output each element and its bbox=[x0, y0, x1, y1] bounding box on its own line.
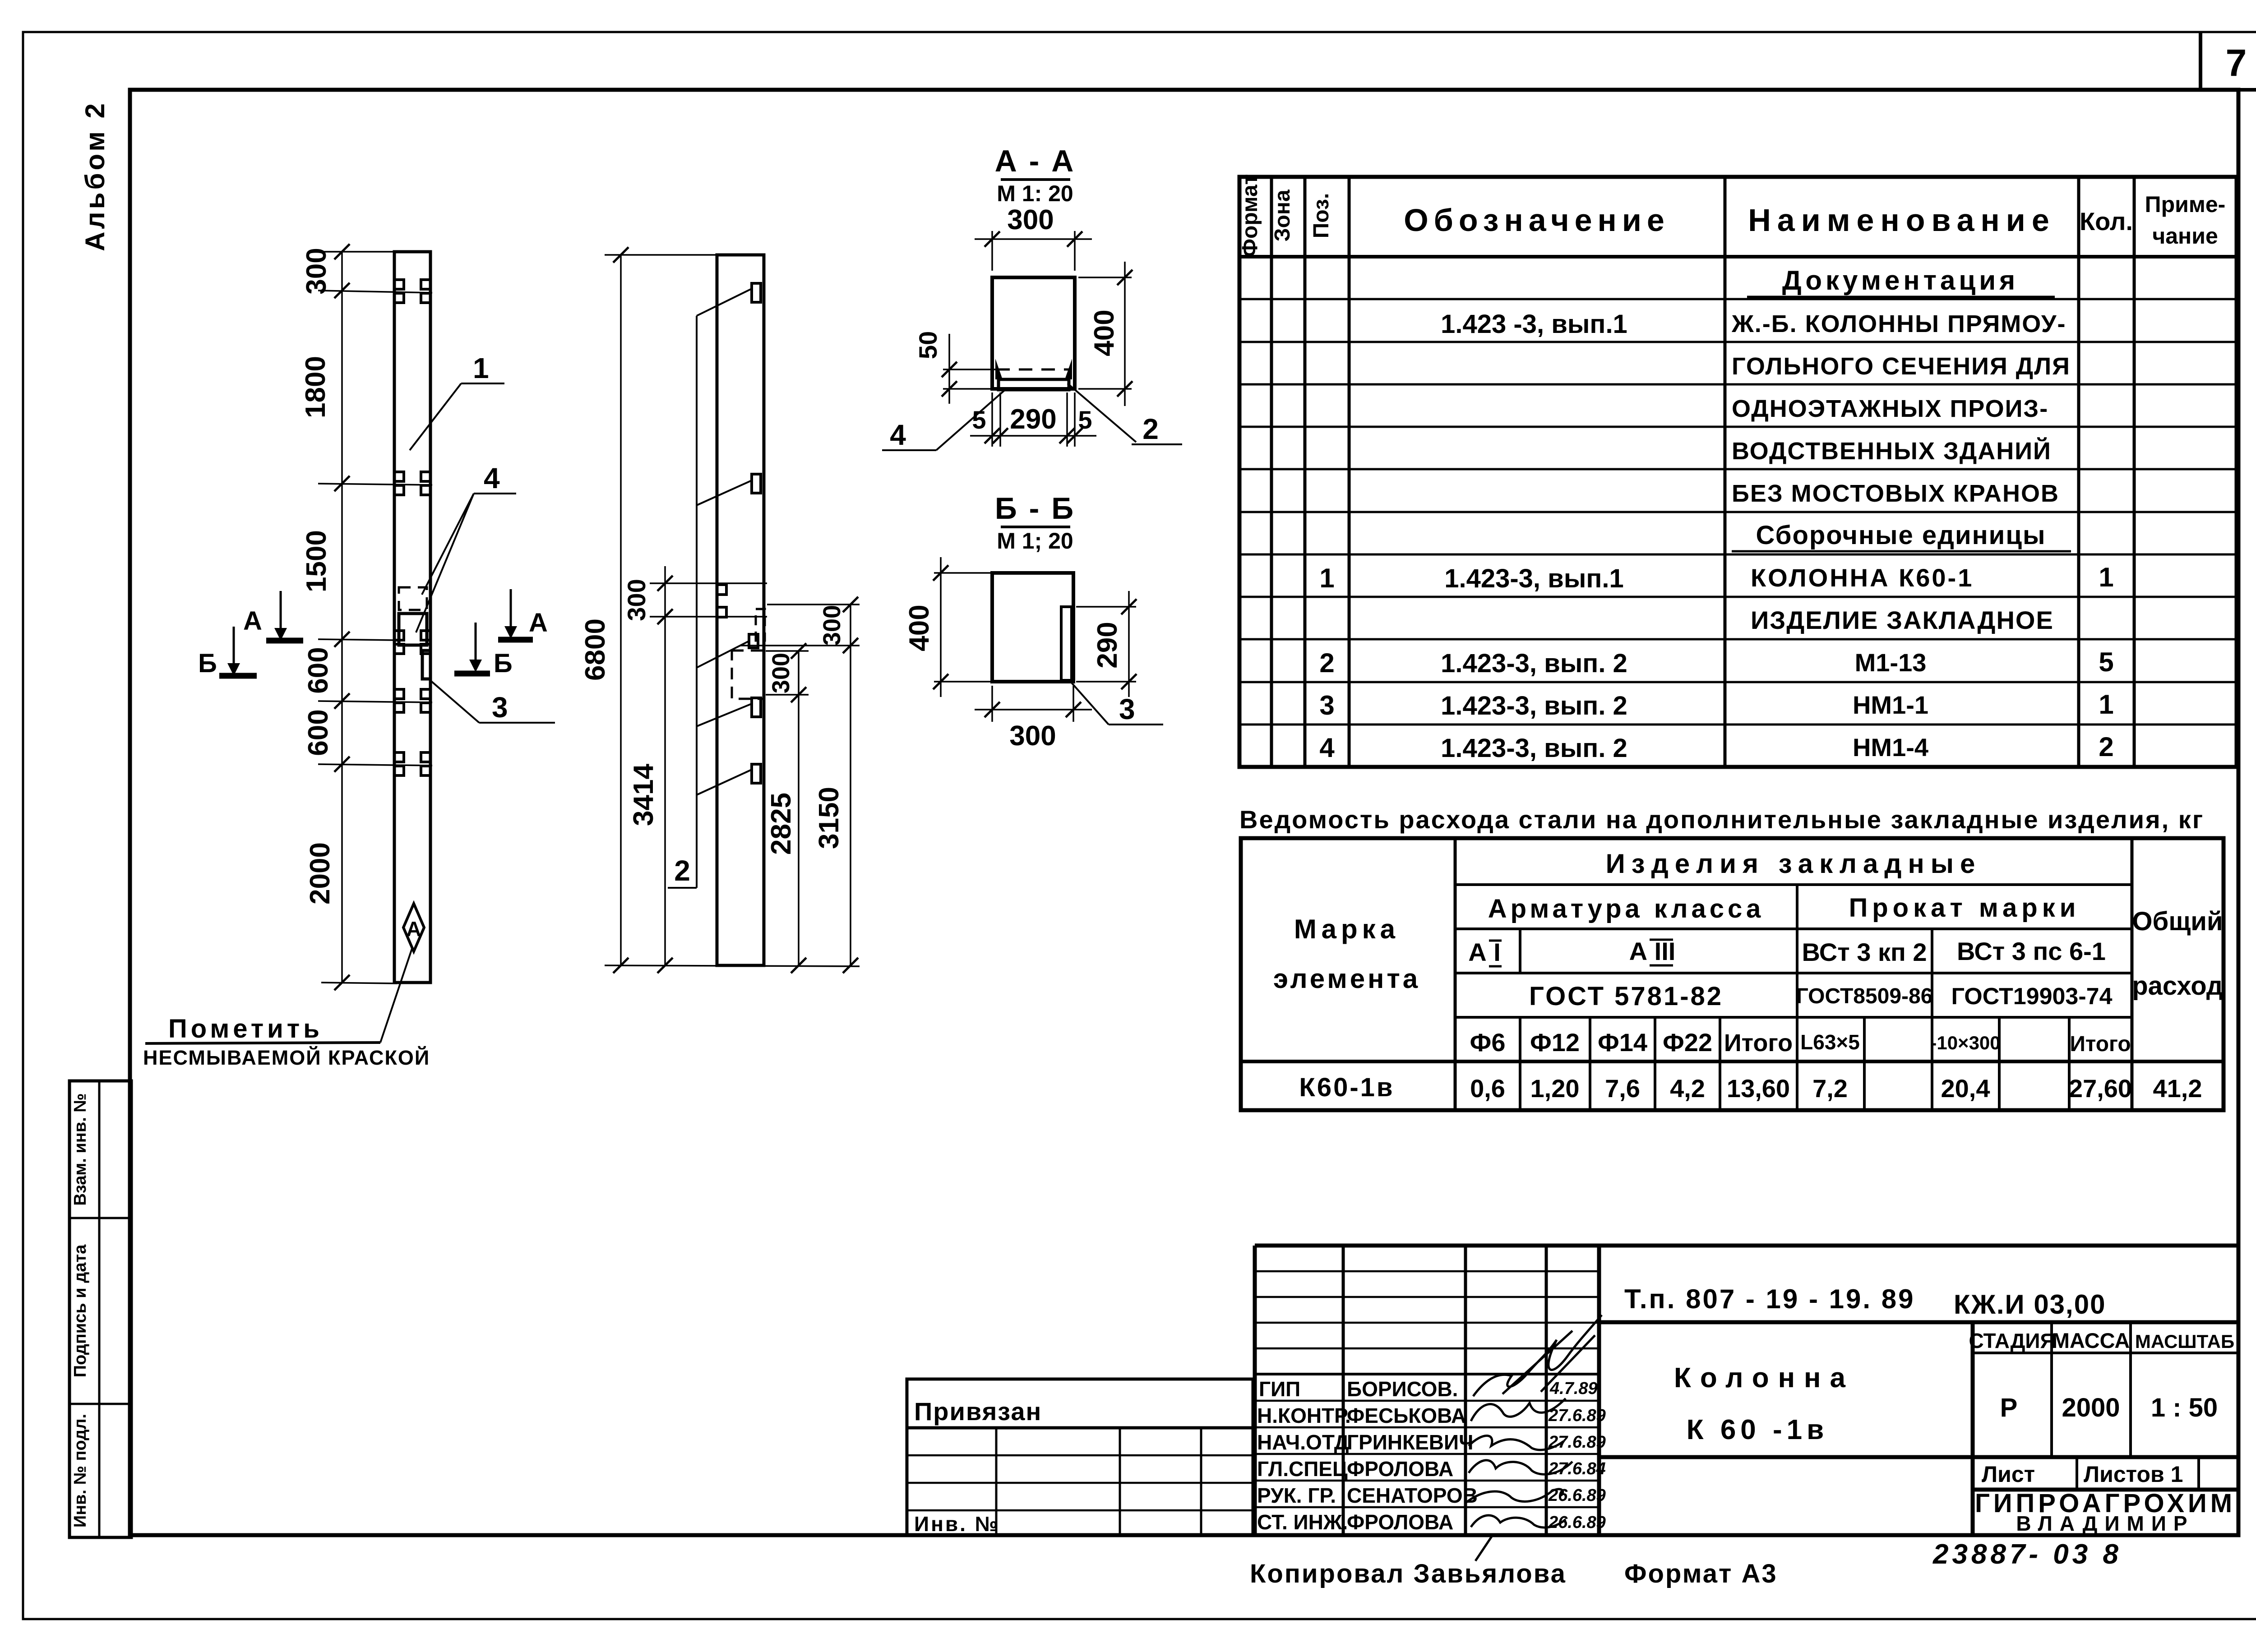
svg-text:290: 290 bbox=[1010, 404, 1056, 435]
svg-text:6800: 6800 bbox=[580, 618, 611, 681]
section arrow A left bbox=[243, 591, 303, 641]
view2 right face plate 3 bbox=[752, 698, 761, 717]
svg-text:Т.п. 807 - 19 - 19. 89: Т.п. 807 - 19 - 19. 89 bbox=[1624, 1284, 1915, 1314]
svg-text:1.423-3, вып. 2: 1.423-3, вып. 2 bbox=[1441, 691, 1627, 720]
svg-text:элемента: элемента bbox=[1273, 964, 1420, 994]
svg-text:Кол.: Кол. bbox=[2080, 207, 2133, 235]
svg-text:7,2: 7,2 bbox=[1812, 1074, 1848, 1103]
section B-B callout 3 bbox=[1069, 680, 1163, 725]
section A-A dim 300 top bbox=[975, 204, 1092, 271]
svg-text:БОРИСОВ.: БОРИСОВ. bbox=[1347, 1377, 1458, 1401]
svg-text:4: 4 bbox=[484, 462, 500, 494]
svg-text:Альбом 2: Альбом 2 bbox=[80, 101, 110, 251]
title block name cell: Колонна К60-1в bbox=[1599, 1322, 2238, 1535]
svg-text:5: 5 bbox=[2099, 647, 2113, 677]
svg-text:Общий: Общий bbox=[2132, 907, 2223, 936]
signature row НАЧ.ОТД Гринкевич bbox=[1257, 1431, 1606, 1454]
view2 dim 300 and 3150 right outer line bbox=[814, 597, 858, 973]
svg-text:ВСт 3 пс 6-1: ВСт 3 пс 6-1 bbox=[1957, 937, 2106, 965]
embedded item NM1-1 solid (view1) bbox=[399, 614, 427, 645]
specification table grid bbox=[1239, 177, 2237, 767]
title block doc number: Т.п. 807-19-19.89 КЖ.И 03,00 bbox=[1599, 1284, 2238, 1322]
view2 right face plate 1 bbox=[752, 283, 761, 302]
svg-text:МАССА: МАССА bbox=[2052, 1329, 2130, 1352]
svg-text:1.423 -3, вып.1: 1.423 -3, вып.1 bbox=[1441, 309, 1627, 339]
svg-text:ГОСТ 5781-82: ГОСТ 5781-82 bbox=[1529, 982, 1723, 1011]
svg-text:300: 300 bbox=[1009, 720, 1056, 752]
svg-text:1.423-3, вып. 2: 1.423-3, вып. 2 bbox=[1441, 649, 1627, 678]
svg-text:НЕСМЫВАЕМОЙ КРАСКОЙ: НЕСМЫВАЕМОЙ КРАСКОЙ bbox=[143, 1046, 430, 1069]
signature row ГИП Борисов bbox=[1259, 1315, 1602, 1401]
spec row: 3 / НМ1-1 / 1 bbox=[1319, 689, 2113, 720]
svg-text:1.423-3, вып.1: 1.423-3, вып.1 bbox=[1444, 564, 1624, 593]
section A-A callout 4 bbox=[882, 389, 1006, 451]
svg-text:Марка: Марка bbox=[1294, 914, 1400, 944]
marking rhombus with A bbox=[403, 904, 424, 951]
svg-text:СЕНАТОРОВ: СЕНАТОРОВ bbox=[1347, 1484, 1478, 1507]
svg-text:20,4: 20,4 bbox=[1941, 1074, 1990, 1103]
section B-B dim 400 left bbox=[904, 557, 990, 697]
svg-text:НМ1-4: НМ1-4 bbox=[1853, 733, 1928, 761]
spec row: 2 / М1-13 / 5 bbox=[1319, 647, 2113, 678]
svg-text:СТ. ИНЖ.: СТ. ИНЖ. bbox=[1257, 1510, 1348, 1534]
svg-text:Приме-: Приме- bbox=[2145, 192, 2226, 217]
svg-text:4: 4 bbox=[1319, 733, 1335, 763]
svg-text:50: 50 bbox=[914, 331, 942, 359]
signature row ГЛ.СПЕЦ Фролова bbox=[1257, 1457, 1606, 1481]
svg-text:Колонна: Колонна bbox=[1674, 1362, 1854, 1394]
svg-text:ВЛАДИМИР: ВЛАДИМИР bbox=[2016, 1512, 2194, 1535]
svg-text:ГОСТ8509-86: ГОСТ8509-86 bbox=[1796, 984, 1933, 1008]
column K60-1v front elevation (view 1) bbox=[394, 252, 430, 983]
svg-text:расход: расход bbox=[2132, 971, 2223, 1001]
section arrow A right bbox=[498, 589, 548, 640]
svg-text:К60-1в: К60-1в bbox=[1299, 1073, 1394, 1102]
svg-text:27,60: 27,60 bbox=[2069, 1074, 2132, 1103]
svg-text:Ф22: Ф22 bbox=[1663, 1028, 1712, 1057]
svg-text:БЕЗ МОСТОВЫХ КРАНОВ: БЕЗ МОСТОВЫХ КРАНОВ bbox=[1732, 480, 2059, 507]
svg-text:4,2: 4,2 bbox=[1670, 1074, 1705, 1103]
section arrow B left bbox=[198, 627, 257, 678]
title block outline bbox=[1255, 1246, 2238, 1535]
embedded plate marks M1-13 fourth pair bbox=[396, 752, 429, 775]
svg-text:1 : 50: 1 : 50 bbox=[2151, 1393, 2218, 1422]
spec row: Сборочные единицы bbox=[1732, 521, 2071, 551]
title block org: ГИПРОАГРОХИМ Владимир bbox=[1975, 1489, 2236, 1535]
embedded plate pos.3 (view1) bbox=[422, 651, 430, 679]
svg-text:4: 4 bbox=[890, 419, 906, 451]
svg-text:2000: 2000 bbox=[2062, 1393, 2120, 1422]
svg-text:РУК. ГР.: РУК. ГР. bbox=[1257, 1484, 1336, 1507]
svg-text:Формат: Формат bbox=[1238, 174, 1262, 257]
svg-text:13,60: 13,60 bbox=[1727, 1074, 1790, 1103]
svg-text:ГОСТ19903-74: ГОСТ19903-74 bbox=[1951, 983, 2112, 1010]
svg-text:290: 290 bbox=[1092, 622, 1123, 668]
sheet number box (7) bbox=[2201, 32, 2256, 90]
svg-text:А: А bbox=[529, 608, 548, 637]
svg-text:Ф12: Ф12 bbox=[1530, 1028, 1580, 1057]
steel data row K60-1v bbox=[1299, 1073, 2202, 1103]
svg-text:Ж.-Б. КОЛОННЫ ПРЯМОУ-: Ж.-Б. КОЛОННЫ ПРЯМОУ- bbox=[1731, 310, 2066, 337]
svg-text:Б - Б: Б - Б bbox=[995, 491, 1075, 526]
callout 2 leader polyline bbox=[668, 289, 752, 888]
svg-text:600: 600 bbox=[303, 647, 334, 693]
section A-A title bbox=[995, 144, 1076, 206]
svg-text:ФРОЛОВА: ФРОЛОВА bbox=[1347, 1510, 1453, 1534]
svg-text:41,2: 41,2 bbox=[2153, 1074, 2202, 1103]
signature row РУК.ГР Сенаторов bbox=[1257, 1484, 1606, 1507]
svg-text:М 1: 20: М 1: 20 bbox=[997, 181, 1073, 206]
svg-text:Формат А3: Формат А3 bbox=[1624, 1559, 1778, 1588]
section B-B dim 290 right bbox=[1076, 591, 1137, 697]
section A-A callout 2 bbox=[1068, 383, 1182, 445]
svg-text:2000: 2000 bbox=[305, 842, 336, 904]
svg-text:300: 300 bbox=[301, 248, 332, 294]
embedded item NM1-4 dashed outline (view1) bbox=[399, 587, 427, 610]
svg-text:7,6: 7,6 bbox=[1605, 1074, 1640, 1103]
svg-text:СТАДИЯ: СТАДИЯ bbox=[1969, 1329, 2055, 1352]
svg-text:М1-13: М1-13 bbox=[1855, 648, 1927, 677]
embedded plate marks M1-13 third pair bbox=[396, 689, 429, 712]
svg-text:1: 1 bbox=[473, 352, 489, 384]
signature row Н.КОНТР Феськова bbox=[1257, 1398, 1606, 1427]
view2 dim 300 and 2825 right inner line bbox=[766, 643, 806, 973]
svg-text:1800: 1800 bbox=[300, 356, 331, 418]
svg-text:300: 300 bbox=[818, 605, 846, 646]
svg-text:Арматура класса: Арматура класса bbox=[1488, 894, 1764, 923]
svg-text:1: 1 bbox=[1319, 563, 1334, 593]
embedded plate marks M1-13 top pair bbox=[396, 280, 429, 303]
svg-text:2: 2 bbox=[1319, 648, 1334, 678]
svg-text:А: А bbox=[243, 606, 262, 636]
title block sheet row: Лист / Листов 1 bbox=[1973, 1457, 2238, 1490]
svg-text:Документация: Документация bbox=[1782, 265, 2019, 295]
svg-text:2: 2 bbox=[1142, 413, 1159, 445]
svg-text:КОЛОННА К60-1: КОЛОННА К60-1 bbox=[1751, 563, 1974, 592]
svg-text:ОДНОЭТАЖНЫХ ПРОИЗ-: ОДНОЭТАЖНЫХ ПРОИЗ- bbox=[1732, 395, 2048, 422]
binding aux table (Привязан) bbox=[907, 1379, 1253, 1536]
svg-text:26.6.89: 26.6.89 bbox=[1548, 1486, 1606, 1505]
signature row СТ.ИНЖ Фролова bbox=[1257, 1510, 1606, 1561]
svg-text:Пометить: Пометить bbox=[168, 1014, 323, 1043]
svg-text:27.6.89: 27.6.89 bbox=[1548, 1406, 1606, 1425]
svg-text:Инв. № подл.: Инв. № подл. bbox=[71, 1414, 90, 1527]
svg-text:3150: 3150 bbox=[814, 787, 845, 849]
callout 1 bbox=[410, 352, 504, 450]
view2 right face dashed plate bbox=[756, 609, 765, 641]
title block stage cells bbox=[1969, 1322, 2238, 1457]
section B-B body bbox=[992, 573, 1073, 682]
svg-text:НМ1-1: НМ1-1 bbox=[1853, 691, 1928, 719]
embedded plate marks M1-13 second pair bbox=[396, 472, 429, 495]
svg-text:Прокат марки: Прокат марки bbox=[1849, 893, 2080, 923]
svg-text:ИЗДЕЛИЕ ЗАКЛАДНОЕ: ИЗДЕЛИЕ ЗАКЛАДНОЕ bbox=[1751, 606, 2054, 634]
svg-text:Ф14: Ф14 bbox=[1598, 1028, 1647, 1057]
spec row: 1.423-3, вып.1 / Ж.-Б. колонны прямоу- bbox=[1441, 309, 2066, 339]
svg-text:НАЧ.ОТД: НАЧ.ОТД bbox=[1257, 1431, 1349, 1454]
svg-text:ГИП: ГИП bbox=[1259, 1377, 1300, 1401]
svg-text:3414: 3414 bbox=[628, 764, 659, 826]
svg-text:Изделия закладные: Изделия закладные bbox=[1606, 849, 1982, 879]
album label: Альбом 2 bbox=[80, 101, 110, 251]
spec row: 1 / Колонна К60-1 / 1 bbox=[1319, 562, 2113, 593]
svg-text:МАСШТАБ: МАСШТАБ bbox=[2135, 1331, 2234, 1352]
svg-text:26.6.89: 26.6.89 bbox=[1548, 1513, 1606, 1532]
svg-text:1,20: 1,20 bbox=[1530, 1074, 1580, 1103]
svg-text:А: А bbox=[406, 917, 421, 941]
svg-text:Б: Б bbox=[494, 649, 513, 678]
svg-text:А - А: А - А bbox=[995, 144, 1076, 178]
section B-B dim 300 bottom bbox=[975, 686, 1092, 752]
callout 3 (view1) bbox=[429, 679, 555, 724]
steel header: A I bbox=[1468, 938, 1502, 966]
svg-text:300: 300 bbox=[622, 579, 651, 621]
svg-text:3: 3 bbox=[1119, 693, 1135, 725]
svg-text:Зона: Зона bbox=[1271, 189, 1294, 241]
view2 right dims extension lines bbox=[740, 605, 860, 695]
svg-text:Копировал Завьялова: Копировал Завьялова bbox=[1250, 1559, 1567, 1588]
embedded plate marks at mid pair bbox=[396, 631, 429, 654]
left inventory strip table bbox=[69, 1081, 131, 1537]
section arrow B right bbox=[454, 623, 513, 678]
view2 left face embedded plate mark bbox=[718, 585, 726, 617]
section A-A dim 400 right bbox=[1078, 262, 1133, 406]
svg-text:300: 300 bbox=[767, 653, 795, 693]
svg-text:5: 5 bbox=[972, 406, 986, 434]
section A-A dim 50 left bbox=[914, 331, 996, 404]
svg-text:Ф6: Ф6 bbox=[1470, 1028, 1506, 1057]
steel header: A III bbox=[1629, 937, 1676, 965]
column K60-1v side elevation (view 2) bbox=[717, 255, 764, 965]
svg-text:600: 600 bbox=[303, 709, 334, 756]
svg-text:ВСт 3 кп 2: ВСт 3 кп 2 bbox=[1802, 938, 1927, 966]
view2 big dashed embedded item NM1-1 bbox=[732, 651, 764, 699]
view2 right face small solid plate bbox=[749, 634, 758, 648]
svg-text:КЖ.И 03,00: КЖ.И 03,00 bbox=[1954, 1289, 2106, 1320]
svg-text:Н.КОНТР.: Н.КОНТР. bbox=[1257, 1404, 1351, 1427]
view2 right face plate 4 bbox=[752, 764, 761, 783]
svg-text:0,6: 0,6 bbox=[1470, 1074, 1505, 1103]
svg-text:К 60 -1в: К 60 -1в bbox=[1687, 1414, 1829, 1445]
svg-text:300: 300 bbox=[1007, 204, 1054, 235]
svg-text:7: 7 bbox=[2226, 42, 2247, 84]
svg-text:Б: Б bbox=[198, 649, 217, 678]
view2 dimension line 3414 and 300 bbox=[622, 566, 767, 973]
svg-text:ФРОЛОВА: ФРОЛОВА bbox=[1347, 1457, 1453, 1481]
svg-text:Взам. инв. №: Взам. инв. № bbox=[71, 1093, 90, 1205]
steel subheader row bbox=[1470, 1028, 2131, 1057]
svg-text:1.423-3, вып. 2: 1.423-3, вып. 2 bbox=[1441, 734, 1627, 763]
svg-text:Инв. №: Инв. № bbox=[914, 1512, 1000, 1536]
svg-text:Сборочные единицы: Сборочные единицы bbox=[1756, 521, 2046, 550]
svg-text:Привязан: Привязан bbox=[914, 1397, 1042, 1426]
view1 dimension line bbox=[318, 244, 432, 990]
svg-text:3: 3 bbox=[492, 691, 508, 724]
svg-text:А III: А III bbox=[1629, 937, 1676, 965]
view2 right face plate 2 bbox=[752, 474, 761, 493]
svg-text:Ведомость расхода стали на доп: Ведомость расхода стали на дополнительны… bbox=[1239, 805, 2204, 834]
steel table grid bbox=[1241, 838, 2224, 1110]
svg-text:2825: 2825 bbox=[766, 793, 797, 855]
svg-text:чание: чание bbox=[2152, 223, 2218, 249]
svg-text:4.7.89: 4.7.89 bbox=[1549, 1379, 1598, 1398]
svg-text:-10×300: -10×300 bbox=[1930, 1032, 2000, 1053]
svg-text:27.6.89: 27.6.89 bbox=[1548, 1433, 1606, 1452]
svg-text:1: 1 bbox=[2099, 562, 2113, 592]
svg-text:А I: А I bbox=[1468, 938, 1501, 966]
steel header: Общий расход bbox=[2132, 907, 2223, 1001]
section B-B title bbox=[995, 491, 1075, 554]
svg-text:М 1; 20: М 1; 20 bbox=[997, 528, 1073, 554]
svg-text:1: 1 bbox=[2099, 689, 2113, 720]
svg-text:Наименование: Наименование bbox=[1748, 203, 2056, 238]
note: Пометить несмываемой краской bbox=[143, 949, 430, 1069]
callout 4 bbox=[416, 462, 516, 632]
section A-A body bbox=[992, 277, 1075, 390]
svg-text:ГЛ.СПЕЦ: ГЛ.СПЕЦ bbox=[1257, 1457, 1348, 1481]
title block left grid bbox=[1255, 1246, 1599, 1535]
svg-text:ВОДСТВЕННЫХ ЗДАНИЙ: ВОДСТВЕННЫХ ЗДАНИЙ bbox=[1732, 437, 2052, 465]
svg-text:Подпись и дата: Подпись и дата bbox=[71, 1244, 90, 1377]
svg-text:27.6.84: 27.6.84 bbox=[1548, 1459, 1606, 1478]
svg-text:L63×5: L63×5 bbox=[1800, 1030, 1860, 1054]
spec row: 4 / НМ1-4 / 2 bbox=[1319, 732, 2113, 763]
svg-text:Итого: Итого bbox=[1724, 1029, 1793, 1057]
svg-text:ГОЛЬНОГО СЕЧЕНИЯ ДЛЯ: ГОЛЬНОГО СЕЧЕНИЯ ДЛЯ bbox=[1732, 353, 2071, 380]
svg-text:ГРИНКЕВИЧ: ГРИНКЕВИЧ bbox=[1347, 1431, 1473, 1454]
svg-text:Обозначение: Обозначение bbox=[1404, 203, 1670, 238]
svg-text:Лист: Лист bbox=[1982, 1462, 2035, 1487]
svg-text:400: 400 bbox=[1089, 309, 1120, 356]
svg-text:Листов 1: Листов 1 bbox=[2084, 1462, 2183, 1487]
spec row: Документация bbox=[1747, 265, 2055, 297]
svg-text:2: 2 bbox=[674, 854, 690, 887]
svg-text:23887- 03 8: 23887- 03 8 bbox=[1932, 1539, 2122, 1570]
svg-text:400: 400 bbox=[904, 605, 935, 651]
view2 main dimension line 6800 bbox=[580, 247, 860, 973]
svg-text:3: 3 bbox=[1319, 690, 1334, 720]
svg-text:5: 5 bbox=[1078, 406, 1092, 434]
svg-text:1500: 1500 bbox=[301, 530, 332, 592]
section A-A dims 5 290 5 bbox=[970, 392, 1096, 447]
svg-text:ФЕСЬКОВА: ФЕСЬКОВА bbox=[1347, 1404, 1466, 1427]
svg-text:Итого: Итого bbox=[2070, 1032, 2131, 1056]
steel header: Марка элемента bbox=[1273, 914, 1420, 994]
svg-text:2: 2 bbox=[2099, 732, 2113, 762]
svg-text:Р: Р bbox=[2000, 1393, 2018, 1422]
svg-text:Поз.: Поз. bbox=[1309, 193, 1333, 238]
